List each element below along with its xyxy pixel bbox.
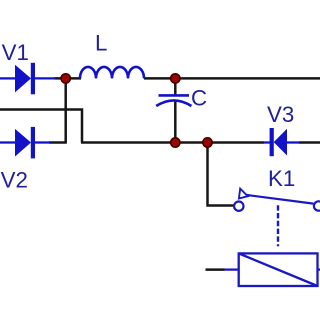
wire: top rail from inductor to right edge [144, 77, 320, 80]
wire: bottom rail after V3 to right edge [299, 141, 320, 144]
wire: capacitor top connection [174, 78, 177, 94]
dashed link between contact K1 and relay coil [277, 205, 279, 246]
label V2 [1, 168, 28, 193]
wire: bottom rail from corner to V3 [81, 141, 264, 144]
node C junction dot [171, 138, 180, 147]
diode V3 [263, 128, 300, 156]
svg-text:V3: V3 [267, 102, 294, 127]
diode V1 [0, 63, 56, 95]
node A junction dot [61, 74, 70, 83]
svg-text:L: L [95, 31, 107, 56]
label L [95, 31, 107, 56]
label K1 [268, 166, 295, 191]
svg-text:V1: V1 [2, 40, 29, 65]
svg-text:C: C [191, 85, 207, 110]
label V3 [267, 102, 294, 127]
wire: capacitor bottom connection [174, 101, 177, 143]
wire: relay coil left lead [206, 268, 225, 271]
svg-text:V2: V2 [1, 168, 28, 193]
wire: V1 cathode to inductor [54, 77, 81, 80]
diode V2 [0, 127, 51, 158]
label V1 [2, 40, 29, 65]
svg-text:K1: K1 [268, 166, 295, 191]
wire: V2 cathode to vertical junction [49, 141, 67, 144]
label C [191, 85, 207, 110]
wire: from node D down and right to relay contact K1 [208, 143, 235, 206]
wire: vertical from node A down to V2 cathode wire [64, 78, 67, 142]
relay contact K1 [234, 189, 320, 211]
node B junction dot [171, 74, 180, 83]
wire: mid-left input rail with corner down to bottom rail [0, 110, 82, 143]
relay coil K1 box [225, 253, 320, 286]
node D junction dot [203, 138, 212, 147]
capacitor C [156, 95, 191, 106]
inductor L [80, 67, 144, 79]
